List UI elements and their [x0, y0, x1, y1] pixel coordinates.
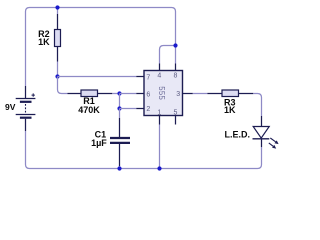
svg-text:4: 4: [157, 73, 161, 80]
wire battery positive riser: [25, 12, 27, 87]
wire R2 bottom to node: [57, 62, 59, 77]
U1 pin 8 stub: [175, 64, 177, 71]
svg-text:9V: 9V: [5, 102, 16, 112]
svg-text:7: 7: [146, 74, 150, 81]
wire LED to ground rail: [261, 147, 263, 165]
op-amp U1 555 timer body: [144, 71, 183, 116]
svg-text:6: 6: [146, 91, 150, 98]
U1 pin 7 stub: [136, 76, 144, 78]
battery B1 9V: [16, 86, 36, 131]
node R1 / pin6 / C1: [117, 91, 121, 95]
U1 pin 4 stub: [159, 64, 161, 71]
node R2 / pin7: [55, 74, 59, 78]
wire node to pin 2: [120, 108, 137, 110]
resistor R3: [207, 90, 253, 97]
wire R2 top lead: [57, 8, 59, 15]
resistor R1: [68, 90, 113, 97]
svg-text:1K: 1K: [224, 105, 236, 115]
wire ground bottom rail: [30, 165, 262, 169]
wire R3 to LED: [253, 94, 261, 117]
svg-text:2: 2: [146, 106, 150, 113]
wire node to pin 7: [58, 76, 137, 78]
node C1 / ground rail: [117, 166, 121, 170]
svg-text:1K: 1K: [38, 37, 50, 47]
wire node down to C1: [119, 109, 121, 119]
wire battery negative to bottom rail: [26, 131, 30, 169]
node top rail / R2: [55, 5, 59, 9]
svg-text:3: 3: [176, 91, 180, 98]
wire Vcc branch to pin 8: [175, 46, 177, 64]
wire R1 to node: [112, 93, 119, 95]
U1 pin 2 stub: [136, 108, 144, 110]
LED D1: [253, 116, 279, 149]
wire node down to R1: [58, 77, 68, 94]
node pin2 / C1: [117, 106, 121, 110]
svg-text:1µF: 1µF: [91, 138, 107, 148]
wire node to node on C1 column: [119, 94, 121, 109]
wire Vcc branch to pin 4: [160, 46, 176, 64]
svg-text:470K: 470K: [78, 105, 100, 115]
svg-text:L.E.D.: L.E.D.: [224, 129, 250, 139]
capacitor C1: [110, 118, 130, 166]
U1 pin 5 stub: [175, 116, 177, 125]
wire +9V top rail: [26, 8, 176, 46]
U1 pin 3 stub: [183, 93, 193, 95]
svg-text:555: 555: [157, 86, 166, 100]
node Vcc branch: [173, 43, 177, 47]
svg-text:1: 1: [157, 109, 161, 116]
resistor R2: [55, 14, 61, 62]
wire pin 1 to ground rail: [159, 125, 161, 169]
U1 pin 1 stub: [159, 116, 161, 125]
node pin1 / ground rail: [157, 166, 161, 170]
U1 pin 6 stub: [136, 93, 144, 95]
svg-text:5: 5: [174, 109, 178, 116]
wire node to pin 6: [120, 93, 137, 95]
wire pin 3 to R3: [193, 93, 208, 95]
wire C1 to ground rail: [119, 166, 121, 169]
svg-text:8: 8: [174, 73, 178, 80]
